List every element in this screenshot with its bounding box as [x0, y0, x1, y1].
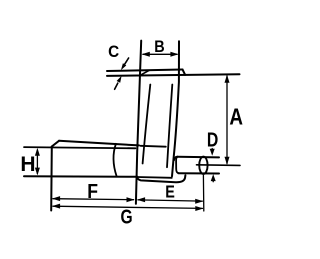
pin end ellipse	[199, 157, 207, 174]
dim A line	[226, 76, 228, 164]
svg-text:B: B	[154, 38, 164, 56]
plate bend chamfer	[142, 70, 150, 74]
dim C lower leader + arrow	[115, 83, 118, 89]
dim B line	[143, 53, 177, 55]
dim F line	[53, 199, 134, 200]
arm outer-right edge	[172, 41, 179, 176]
arm inner-right line	[167, 85, 172, 168]
tube bottom continuation through arm	[137, 176, 172, 179]
svg-text:F: F	[87, 181, 98, 204]
dim E line	[138, 200, 202, 201]
dim B arrows	[142, 52, 150, 57]
pin centerline / A bottom reference	[197, 164, 241, 167]
svg-text:A: A	[229, 105, 243, 130]
svg-text:H: H	[20, 153, 35, 176]
arm outer-left edge with extension to G line	[136, 41, 141, 204]
arm bottom lobe wrap under pin	[137, 175, 186, 182]
tube left end chamfer	[52, 141, 59, 147]
svg-text:G: G	[120, 205, 132, 227]
dim H arrows	[35, 148, 40, 156]
pin bottom line	[178, 172, 219, 174]
tube upper edge line (H top reference)	[24, 147, 136, 148]
right extension line below pin	[202, 176, 204, 212]
dim A arrows	[225, 75, 230, 83]
top plate bottom line / A top reference	[107, 74, 240, 76]
dim H line	[36, 150, 38, 174]
tube bottom edge (H bottom reference)	[24, 175, 136, 178]
tube top continuation through arm	[141, 145, 166, 148]
pin top line	[177, 156, 219, 159]
dim D lower arrow	[212, 181, 214, 182]
top plate top line	[107, 70, 183, 72]
tube left edge continuing down as F/G extension	[50, 147, 53, 211]
dim G arrows	[52, 204, 60, 209]
tube end arc at arm	[113, 144, 116, 176]
dim C upper leader + arrow	[125, 58, 129, 64]
svg-text:E: E	[165, 182, 175, 202]
pin left cap	[176, 157, 178, 173]
dim D upper arrow	[211, 149, 213, 150]
tube top silhouette line	[59, 141, 139, 146]
pin top fillet from arm edge	[174, 157, 177, 160]
svg-text:D: D	[207, 129, 218, 151]
dim F arrows	[52, 196, 60, 201]
top plate right step	[183, 70, 186, 75]
svg-text:C: C	[108, 42, 119, 61]
dim E arrows	[137, 197, 145, 202]
arm inner-left line	[143, 85, 151, 164]
dim G line	[53, 206, 202, 208]
